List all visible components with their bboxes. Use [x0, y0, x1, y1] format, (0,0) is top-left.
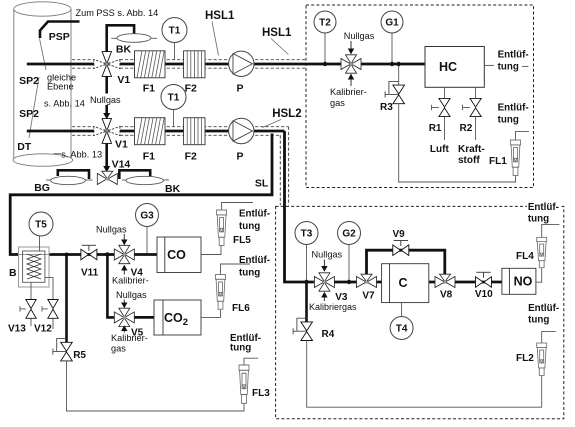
svg-text:Kalibrier-: Kalibrier- — [111, 333, 148, 343]
svg-text:Nullgas: Nullgas — [116, 290, 147, 300]
svg-text:Nullgas: Nullgas — [344, 31, 375, 41]
svg-text:P: P — [237, 83, 244, 95]
svg-text:V11: V11 — [81, 268, 99, 279]
svg-text:V14: V14 — [112, 159, 131, 171]
svg-text:Entlüf-: Entlüf- — [528, 202, 559, 213]
svg-text:R2: R2 — [460, 123, 473, 134]
svg-text:s. Abb. 14: s. Abb. 14 — [44, 99, 85, 109]
svg-text:tung: tung — [239, 221, 260, 232]
svg-text:FL6: FL6 — [232, 303, 250, 314]
svg-text:tung: tung — [528, 213, 549, 224]
svg-text:R4: R4 — [322, 329, 335, 340]
svg-text:Kalibrier-: Kalibrier- — [112, 276, 149, 286]
svg-text:HSL1: HSL1 — [262, 27, 292, 39]
svg-text:T2: T2 — [319, 18, 331, 29]
svg-text:FL3: FL3 — [252, 388, 270, 399]
svg-text:SL: SL — [255, 178, 269, 190]
svg-text:G2: G2 — [342, 229, 356, 240]
svg-text:C: C — [398, 276, 407, 290]
svg-text:FL5: FL5 — [233, 235, 251, 246]
svg-text:P: P — [237, 151, 244, 163]
svg-text:V1: V1 — [117, 74, 130, 86]
svg-text:HC: HC — [439, 60, 457, 74]
svg-text:tung: tung — [498, 115, 519, 126]
svg-text:Kalibrier-: Kalibrier- — [330, 87, 367, 97]
svg-text:T3: T3 — [301, 229, 313, 240]
svg-text:V9: V9 — [393, 229, 406, 240]
svg-text:Ebene: Ebene — [47, 82, 74, 92]
svg-text:Entlüf-: Entlüf- — [239, 255, 270, 266]
svg-text:F1: F1 — [143, 151, 155, 163]
svg-text:Entlüf-: Entlüf- — [498, 50, 529, 61]
svg-text:Zum PSS s. Abb. 14: Zum PSS s. Abb. 14 — [76, 8, 159, 18]
svg-text:T5: T5 — [35, 220, 47, 231]
svg-text:gas: gas — [330, 98, 345, 108]
svg-text:HSL1: HSL1 — [205, 10, 235, 22]
svg-text:Entlüf-: Entlüf- — [498, 103, 529, 114]
svg-text:Nullgas: Nullgas — [312, 250, 343, 260]
svg-text:Luft: Luft — [430, 144, 450, 155]
svg-text:V1: V1 — [115, 139, 128, 151]
svg-text:SP2: SP2 — [19, 108, 39, 120]
svg-text:R1: R1 — [429, 123, 442, 134]
svg-text:HSL2: HSL2 — [272, 108, 301, 120]
svg-text:NO: NO — [514, 275, 533, 289]
svg-text:Nullgas: Nullgas — [90, 95, 121, 105]
svg-text:T4: T4 — [396, 324, 408, 335]
svg-text:G3: G3 — [140, 211, 154, 222]
svg-text:R5: R5 — [73, 350, 86, 361]
svg-text:SP2: SP2 — [19, 75, 39, 87]
svg-text:tung: tung — [498, 62, 519, 73]
svg-text:T1: T1 — [169, 26, 181, 37]
svg-text:Nullgas: Nullgas — [96, 225, 127, 235]
svg-text:stoff: stoff — [458, 155, 480, 166]
svg-text:gas: gas — [111, 344, 126, 354]
svg-text:Entlüf-: Entlüf- — [528, 303, 559, 314]
svg-text:tung: tung — [239, 268, 260, 279]
svg-text:V10: V10 — [475, 289, 493, 300]
svg-text:F1: F1 — [143, 83, 155, 95]
svg-text:G1: G1 — [385, 18, 399, 29]
svg-text:FL4: FL4 — [516, 251, 534, 262]
svg-text:Kraft-: Kraft- — [458, 144, 485, 155]
svg-text:PSP: PSP — [49, 31, 70, 43]
svg-text:s. Abb. 13: s. Abb. 13 — [61, 150, 102, 160]
svg-text:FL2: FL2 — [516, 353, 534, 364]
svg-text:DT: DT — [17, 141, 32, 153]
svg-text:BG: BG — [34, 182, 50, 194]
svg-text:FL1: FL1 — [489, 156, 507, 167]
svg-text:T1: T1 — [168, 93, 180, 104]
svg-text:Entlüf-: Entlüf- — [239, 209, 270, 220]
svg-text:BK: BK — [165, 183, 181, 195]
svg-text:F2: F2 — [185, 83, 197, 95]
svg-text:BK: BK — [116, 44, 132, 56]
svg-text:B: B — [9, 267, 17, 279]
svg-text:V8: V8 — [440, 290, 453, 301]
svg-text:V7: V7 — [362, 291, 375, 302]
svg-text:tung: tung — [230, 343, 251, 354]
svg-text:R3: R3 — [380, 102, 393, 113]
svg-text:CO: CO — [167, 248, 186, 262]
svg-text:F2: F2 — [185, 151, 197, 163]
svg-text:tung: tung — [528, 315, 549, 326]
svg-text:Kalibriergas: Kalibriergas — [309, 302, 357, 312]
svg-text:V12: V12 — [34, 324, 52, 335]
svg-text:V13: V13 — [8, 324, 26, 335]
